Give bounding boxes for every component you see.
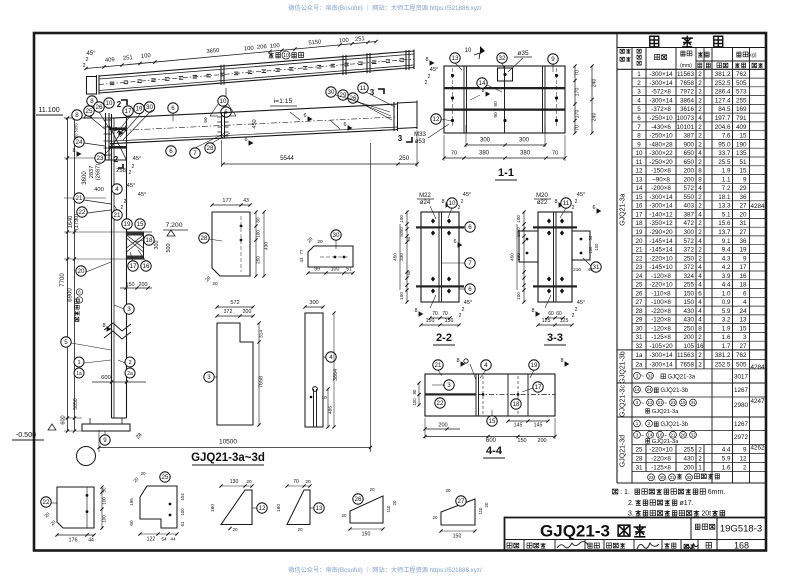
svg-text:-100×8: -100×8 — [651, 299, 671, 306]
svg-text:32: 32 — [635, 343, 643, 350]
svg-text:-572×8: -572×8 — [651, 89, 671, 96]
svg-text:-300×14: -300×14 — [649, 97, 673, 104]
svg-text:GJQ21-3a: GJQ21-3a — [652, 409, 680, 415]
svg-text:300: 300 — [519, 138, 530, 144]
2-2 bolts — [431, 218, 435, 223]
svg-text:8: 8 — [637, 133, 641, 140]
svg-text:250: 250 — [256, 256, 261, 264]
svg-text:20: 20 — [342, 513, 347, 518]
svg-text:20: 20 — [392, 500, 397, 505]
svg-text:15: 15 — [739, 133, 747, 140]
svg-text:10: 10 — [220, 98, 227, 105]
svg-text:10: 10 — [635, 150, 643, 157]
2-2 bottom dims — [430, 317, 450, 319]
svg-text:13: 13 — [635, 176, 643, 183]
svg-text:32: 32 — [686, 475, 692, 480]
svg-text:8: 8 — [554, 199, 557, 205]
svg-text:(kg): (kg) — [748, 53, 757, 59]
svg-text:2: 2 — [428, 74, 431, 80]
svg-text:240: 240 — [592, 113, 598, 122]
svg-text:28: 28 — [635, 308, 643, 315]
svg-text:(2687): (2687) — [96, 164, 102, 180]
part 6 splices — [220, 65, 222, 85]
section 3-3 — [538, 212, 572, 302]
svg-text:M20: M20 — [536, 193, 548, 199]
svg-text:1.0: 1.0 — [722, 290, 731, 297]
svg-text:1.6: 1.6 — [722, 464, 731, 471]
svg-text:6900: 6900 — [68, 288, 74, 302]
circles left of column — [74, 137, 84, 147]
svg-text:8: 8 — [102, 323, 105, 329]
svg-text:409: 409 — [105, 57, 115, 64]
svg-text:33.7: 33.7 — [718, 150, 731, 157]
svg-text:-300×14: -300×14 — [649, 352, 673, 359]
svg-text:2: 2 — [129, 170, 132, 176]
svg-text:10: 10 — [321, 395, 327, 401]
svg-text:50: 50 — [588, 235, 593, 240]
svg-text:60: 60 — [406, 270, 411, 275]
dimension line above part 6 — [86, 42, 376, 69]
svg-text:22: 22 — [437, 400, 444, 407]
svg-text:36: 36 — [739, 194, 747, 201]
svg-text:10: 10 — [449, 200, 456, 207]
svg-text:409: 409 — [736, 124, 747, 131]
svg-text:8: 8 — [456, 358, 459, 364]
svg-text:300: 300 — [683, 229, 694, 236]
svg-text:314: 314 — [259, 330, 265, 338]
svg-text:4284: 4284 — [750, 203, 765, 210]
svg-text:70: 70 — [552, 151, 558, 157]
svg-text:15: 15 — [680, 400, 686, 405]
svg-text:3: 3 — [636, 373, 639, 378]
svg-text:23: 23 — [648, 475, 654, 480]
svg-text:~: ~ — [664, 401, 667, 407]
svg-text:4.3: 4.3 — [722, 255, 731, 262]
svg-text:8: 8 — [698, 176, 702, 183]
svg-text:31: 31 — [739, 220, 747, 227]
svg-text:100: 100 — [256, 230, 261, 238]
part 30 plate — [308, 246, 353, 267]
svg-text:6: 6 — [169, 148, 173, 155]
svg-text:324: 324 — [683, 273, 694, 280]
svg-text:3: 3 — [398, 134, 403, 143]
svg-text:2: 2 — [698, 159, 702, 166]
svg-text:微信公众号：帛南(Bosoful) ｜ 网站：大师工程资源: 微信公众号：帛南(Bosoful) ｜ 网站：大师工程资源 https://52… — [288, 4, 482, 12]
3-3 bottom dims — [547, 317, 563, 319]
section 4-4 — [425, 374, 555, 416]
svg-text:-350×12: -350×12 — [649, 220, 673, 227]
svg-text:45°: 45° — [464, 300, 472, 306]
svg-text:100: 100 — [399, 215, 404, 223]
svg-text:14: 14 — [479, 80, 486, 87]
svg-text:1.9: 1.9 — [722, 168, 731, 175]
1-1 top labels — [450, 53, 460, 63]
svg-text:-250×10: -250×10 — [649, 115, 673, 122]
svg-text:251: 251 — [123, 55, 133, 62]
svg-text:430: 430 — [683, 308, 694, 315]
svg-text:-120×8: -120×8 — [651, 325, 671, 332]
circle 20 — [76, 266, 86, 276]
part 4 dims — [305, 306, 323, 308]
svg-text:-125×8: -125×8 — [651, 334, 671, 341]
svg-text:10073: 10073 — [676, 115, 694, 122]
svg-text:6: 6 — [453, 239, 456, 245]
3-3 side plates — [519, 231, 538, 262]
svg-text:-300×14: -300×14 — [649, 362, 673, 369]
svg-text:400: 400 — [94, 187, 104, 193]
svg-text:90: 90 — [493, 101, 499, 107]
svg-text:43: 43 — [243, 198, 249, 204]
svg-text:170: 170 — [575, 110, 581, 119]
svg-text:4: 4 — [115, 186, 119, 193]
svg-text:200: 200 — [537, 438, 546, 444]
svg-text:17: 17 — [130, 263, 137, 270]
svg-text:200: 200 — [438, 423, 447, 429]
svg-text:9: 9 — [743, 255, 747, 262]
svg-text:21: 21 — [635, 247, 643, 254]
svg-text:500: 500 — [166, 244, 172, 253]
svg-text:4247: 4247 — [750, 398, 765, 405]
svg-text:8: 8 — [114, 127, 117, 133]
svg-text:-220×10: -220×10 — [649, 255, 673, 262]
svg-text:200: 200 — [683, 168, 694, 175]
svg-text:3650: 3650 — [206, 48, 219, 55]
part 27 wedge — [441, 499, 475, 525]
svg-text:70: 70 — [432, 311, 438, 317]
svg-text:762: 762 — [736, 352, 747, 359]
svg-text:176: 176 — [69, 538, 78, 544]
svg-text:14: 14 — [634, 387, 640, 392]
svg-text:30: 30 — [146, 104, 153, 111]
svg-text:8: 8 — [531, 308, 534, 314]
svg-text:15: 15 — [739, 168, 747, 175]
svg-text:486: 486 — [328, 406, 334, 414]
svg-text:8: 8 — [72, 148, 75, 154]
svg-text:70: 70 — [293, 479, 299, 485]
svg-text:150: 150 — [683, 290, 694, 297]
svg-text:600: 600 — [101, 375, 111, 381]
svg-text:3616: 3616 — [680, 106, 695, 113]
svg-text:13: 13 — [739, 317, 747, 324]
svg-text:1: 1 — [77, 360, 80, 366]
svg-text:6: 6 — [743, 290, 747, 297]
svg-text:~90×8: ~90×8 — [652, 176, 670, 183]
svg-text:150: 150 — [426, 318, 435, 324]
svg-text:27: 27 — [739, 203, 747, 210]
svg-text:25: 25 — [635, 446, 643, 453]
svg-text:7.200: 7.200 — [165, 222, 182, 229]
svg-text:550: 550 — [683, 194, 694, 201]
svg-text:2: 2 — [572, 205, 575, 211]
svg-text:20: 20 — [78, 268, 85, 275]
rafter end plate right — [393, 102, 395, 131]
svg-text:16: 16 — [739, 273, 747, 280]
svg-text:150: 150 — [683, 299, 694, 306]
svg-text:: 1.: : 1. — [620, 489, 630, 496]
svg-text:5.1: 5.1 — [722, 211, 731, 218]
svg-text:200: 200 — [243, 309, 252, 315]
svg-text:122: 122 — [147, 537, 156, 543]
svg-text:600: 600 — [486, 438, 497, 444]
svg-text:12: 12 — [739, 455, 747, 462]
1-1 flange bands — [444, 87, 565, 89]
svg-text:20: 20 — [445, 488, 451, 493]
svg-text:31: 31 — [690, 400, 696, 405]
svg-text:-220×8: -220×8 — [651, 308, 671, 315]
1-1 bottom dims — [466, 144, 545, 146]
svg-text:70: 70 — [575, 125, 581, 131]
svg-text:GJQ21-3a: GJQ21-3a — [652, 439, 680, 445]
svg-text:18: 18 — [146, 237, 153, 244]
svg-text:ø35: ø35 — [517, 50, 529, 57]
svg-text:572: 572 — [683, 185, 694, 192]
svg-text:100: 100 — [331, 267, 340, 273]
svg-text:-125×8: -125×8 — [651, 464, 671, 471]
svg-text:7: 7 — [637, 124, 641, 131]
svg-text:30: 30 — [328, 89, 335, 96]
svg-text:20: 20 — [212, 281, 218, 287]
svg-text:GJQ21-3b: GJQ21-3b — [660, 422, 688, 428]
svg-text:5: 5 — [64, 339, 68, 346]
svg-text:45°: 45° — [463, 192, 472, 198]
svg-text:-300×14: -300×14 — [649, 71, 673, 78]
svg-text:2: 2 — [82, 63, 85, 69]
svg-text:600: 600 — [61, 415, 67, 424]
svg-text:26: 26 — [635, 290, 643, 297]
svg-text:21: 21 — [76, 195, 83, 202]
svg-text:2972: 2972 — [734, 434, 749, 441]
svg-text:3.: 3. — [628, 511, 634, 518]
svg-text:900: 900 — [683, 141, 694, 148]
svg-text:20: 20 — [246, 479, 252, 485]
svg-text:4262: 4262 — [750, 445, 765, 452]
svg-text:9: 9 — [103, 437, 107, 444]
material table — [616, 33, 618, 483]
svg-text:7.6: 7.6 — [722, 133, 731, 140]
svg-text:4: 4 — [329, 354, 333, 361]
svg-text:1: 1 — [636, 421, 639, 426]
svg-text:3: 3 — [636, 432, 639, 437]
svg-text:GJQ21-3b: GJQ21-3b — [620, 351, 627, 383]
svg-text:2: 2 — [698, 352, 702, 359]
svg-text:23: 23 — [97, 155, 104, 162]
knee flange bands — [109, 128, 127, 131]
svg-text:2: 2 — [117, 100, 122, 109]
1-1 right dims — [574, 66, 576, 133]
svg-text:169: 169 — [736, 106, 747, 113]
svg-text:7658: 7658 — [680, 80, 695, 87]
part 28 plate — [212, 212, 250, 276]
svg-text:12: 12 — [635, 168, 643, 175]
vertical extension to 10500 — [370, 143, 372, 452]
notes — [613, 489, 618, 494]
svg-text:100: 100 — [141, 53, 151, 60]
svg-text:~: ~ — [641, 433, 644, 439]
svg-text:2: 2 — [648, 421, 651, 426]
svg-text:16: 16 — [143, 263, 150, 270]
svg-text:387: 387 — [683, 211, 694, 218]
svg-text:微信公众号：帛南(Bosoful) ｜ 网站：大师工程资源: 微信公众号：帛南(Bosoful) ｜ 网站：大师工程资源 https://52… — [288, 566, 482, 574]
svg-text:430: 430 — [683, 317, 694, 324]
svg-text:GJQ21-3c: GJQ21-3c — [620, 385, 627, 417]
svg-text:372: 372 — [224, 309, 233, 315]
svg-text:1267: 1267 — [734, 421, 749, 428]
svg-text:380: 380 — [479, 151, 490, 157]
svg-text:145: 145 — [534, 423, 543, 429]
svg-text:-145×14: -145×14 — [649, 247, 673, 254]
svg-text:3: 3 — [370, 88, 375, 97]
svg-text:,: , — [641, 422, 642, 428]
svg-text:-300×14: -300×14 — [649, 194, 673, 201]
svg-text:8: 8 — [698, 325, 702, 332]
svg-text:18: 18 — [635, 220, 643, 227]
column left dim chains — [67, 118, 69, 431]
part 4 plate tall — [305, 313, 323, 427]
svg-text:1: 1 — [637, 71, 641, 78]
svg-text:20: 20 — [140, 471, 146, 476]
svg-text:2980: 2980 — [734, 402, 749, 409]
svg-text:10500: 10500 — [219, 439, 237, 446]
svg-text:430: 430 — [264, 242, 270, 250]
svg-text:100: 100 — [399, 292, 404, 300]
svg-text:2: 2 — [575, 199, 578, 205]
svg-text:240: 240 — [592, 79, 598, 88]
svg-text:70: 70 — [451, 151, 457, 157]
svg-text:29: 29 — [739, 185, 747, 192]
svg-text:650: 650 — [683, 150, 694, 157]
svg-text:2: 2 — [572, 313, 575, 319]
svg-text:36: 36 — [739, 238, 747, 245]
svg-text:19: 19 — [739, 247, 747, 254]
svg-text:4-4: 4-4 — [486, 445, 503, 457]
svg-text:250: 250 — [399, 155, 410, 162]
svg-text:3: 3 — [127, 306, 131, 313]
svg-text:5.9: 5.9 — [722, 308, 731, 315]
svg-text:16: 16 — [635, 203, 643, 210]
svg-text:2: 2 — [462, 307, 465, 313]
svg-text:2: 2 — [459, 313, 462, 319]
svg-text:450: 450 — [393, 253, 398, 261]
svg-text:7658: 7658 — [680, 362, 695, 369]
svg-text:7.2: 7.2 — [722, 185, 731, 192]
svg-text:0.9: 0.9 — [722, 299, 731, 306]
svg-text:2: 2 — [698, 362, 702, 369]
svg-text:15: 15 — [137, 221, 144, 228]
svg-text:8: 8 — [698, 168, 702, 175]
svg-text:1: 1 — [698, 464, 702, 471]
svg-text:-480×28: -480×28 — [649, 141, 673, 148]
svg-text:110: 110 — [386, 505, 391, 513]
svg-text:3.2: 3.2 — [722, 317, 731, 324]
svg-text:19: 19 — [136, 106, 143, 113]
svg-text:4: 4 — [698, 308, 702, 315]
svg-text:100: 100 — [339, 38, 349, 45]
svg-text:197.7: 197.7 — [715, 115, 731, 122]
svg-text:4.4: 4.4 — [722, 282, 731, 289]
svg-text:44: 44 — [88, 538, 94, 544]
circle 8 leader top strip — [87, 96, 97, 106]
svg-text:135: 135 — [736, 150, 747, 157]
svg-text:80: 80 — [256, 217, 261, 223]
svg-text:168: 168 — [734, 541, 749, 551]
svg-text:650: 650 — [683, 159, 694, 166]
svg-text:5150: 5150 — [308, 39, 321, 46]
svg-text:25.5: 25.5 — [718, 159, 731, 166]
svg-text:8: 8 — [441, 199, 444, 205]
svg-text:2: 2 — [425, 80, 428, 86]
svg-text:27: 27 — [458, 498, 465, 505]
svg-text:-430×6: -430×6 — [651, 124, 671, 131]
dim 5544 / 250 — [223, 163, 417, 165]
svg-text:3: 3 — [447, 382, 451, 389]
part 13 triangle — [287, 490, 310, 525]
svg-text:251: 251 — [355, 36, 365, 43]
3-3 left dims — [523, 212, 525, 302]
svg-text:2a: 2a — [635, 362, 643, 369]
section 1-1 — [444, 66, 565, 133]
svg-text:32: 32 — [499, 55, 506, 62]
svg-text:100: 100 — [588, 246, 593, 254]
svg-text:77: 77 — [299, 249, 304, 254]
svg-text:51: 51 — [346, 267, 352, 273]
svg-text:-200×8: -200×8 — [651, 185, 671, 192]
svg-text:60: 60 — [203, 117, 209, 123]
svg-text:8: 8 — [560, 358, 563, 364]
svg-text:11: 11 — [563, 200, 570, 207]
svg-text:6mm.: 6mm. — [708, 489, 726, 496]
svg-text:60: 60 — [406, 236, 411, 241]
svg-text:32: 32 — [690, 432, 696, 437]
svg-text:-220×10: -220×10 — [649, 446, 673, 453]
svg-text:14: 14 — [635, 185, 643, 192]
svg-text:M33: M33 — [414, 132, 426, 138]
svg-text:-250×10: -250×10 — [649, 133, 673, 140]
part 3 plate tall — [217, 323, 253, 425]
svg-text:11563: 11563 — [677, 71, 695, 78]
svg-text:24: 24 — [646, 387, 652, 392]
rafter splice at x=223 — [221, 113, 223, 139]
svg-text:200: 200 — [683, 176, 694, 183]
svg-text:1.6: 1.6 — [722, 334, 731, 341]
svg-text:13: 13 — [647, 400, 653, 405]
circles 21 22 on column — [74, 193, 84, 203]
svg-text:32: 32 — [647, 373, 653, 378]
svg-text:2.: 2. — [628, 500, 634, 507]
table group 3c — [634, 386, 641, 393]
svg-text:1.7: 1.7 — [722, 343, 731, 350]
1-1 stiffener verticals — [463, 66, 465, 133]
svg-text:95.0: 95.0 — [718, 141, 731, 148]
svg-text:5050: 5050 — [74, 123, 79, 133]
svg-text:2: 2 — [698, 194, 702, 201]
svg-text:2-2: 2-2 — [436, 332, 452, 344]
svg-text:125: 125 — [560, 318, 569, 324]
svg-text:505: 505 — [736, 80, 747, 87]
svg-text:21: 21 — [435, 362, 442, 369]
svg-text:24: 24 — [739, 308, 747, 315]
svg-text:99: 99 — [314, 267, 320, 273]
svg-text:60: 60 — [556, 311, 562, 317]
svg-text:5.9: 5.9 — [722, 455, 731, 462]
part 6 centreline with holes — [99, 59, 414, 85]
svg-text:2: 2 — [698, 220, 702, 227]
2-2 flange plates — [416, 226, 464, 228]
svg-text:2: 2 — [124, 199, 127, 205]
svg-text:4: 4 — [698, 264, 702, 271]
svg-text:17: 17 — [125, 108, 132, 115]
svg-text:18: 18 — [739, 282, 747, 289]
svg-text:44: 44 — [170, 537, 176, 543]
